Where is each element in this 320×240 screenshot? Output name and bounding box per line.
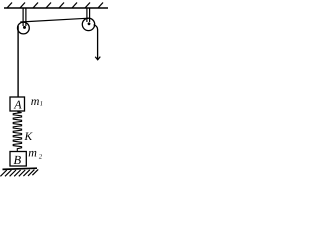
ground hatch marks: [0, 169, 38, 176]
top string between pulleys: [20, 18, 88, 22]
right string free end: [94, 25, 98, 60]
right pulley hanger clevis: [87, 8, 90, 23]
svg-text:m: m: [31, 94, 40, 108]
right pulley axle dot: [88, 22, 91, 25]
svg-text:2: 2: [39, 153, 43, 160]
right pulley: [82, 18, 94, 30]
ceiling line: [4, 7, 108, 9]
svg-text:B: B: [14, 153, 22, 167]
block A: [10, 97, 25, 111]
block B: [10, 152, 26, 167]
arrowhead on free end: [95, 57, 100, 60]
left pulley hanger clevis: [23, 8, 26, 27]
svg-text:1: 1: [40, 101, 43, 108]
ceiling hatch marks: [7, 3, 103, 9]
svg-text:m: m: [28, 146, 37, 160]
spring K: [13, 112, 21, 152]
svg-text:A: A: [13, 98, 22, 112]
left string down to block A: [17, 26, 19, 98]
ground line: [3, 168, 38, 169]
left pulley axle dot: [23, 26, 26, 29]
svg-text:K: K: [24, 131, 34, 143]
left pulley: [18, 22, 30, 34]
